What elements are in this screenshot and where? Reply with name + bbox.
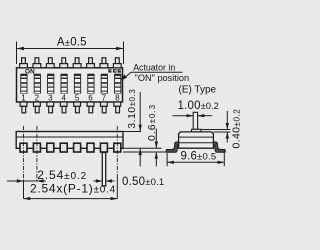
- svg-text:3.10±0.3: 3.10±0.3: [126, 89, 138, 129]
- svg-text:8: 8: [115, 93, 120, 102]
- front view pads: [20, 143, 121, 152]
- pin 1 bottom: [20, 102, 27, 106]
- pin 4 top: [62, 58, 66, 64]
- svg-text:3: 3: [48, 93, 53, 102]
- (E) body: [179, 132, 214, 148]
- pin 7 top: [102, 58, 106, 64]
- svg-text:Actuator in: Actuator in: [133, 62, 175, 72]
- pin 4 bottom: [60, 102, 67, 106]
- pin 5 bottom: [74, 102, 81, 106]
- svg-text:6: 6: [88, 93, 93, 102]
- pin 7 bottom: [101, 102, 108, 106]
- pin 6 bottom: [87, 102, 94, 106]
- pin 1 top: [22, 58, 26, 64]
- switch body top view: [17, 68, 123, 102]
- (E) view stem: [193, 112, 197, 129]
- svg-text:A±0.5: A±0.5: [57, 37, 87, 49]
- dim 9.6±0.5: [166, 153, 168, 166]
- dim 0.40±0.2: [201, 129, 230, 131]
- svg-text:1.00±0.2: 1.00±0.2: [178, 100, 219, 112]
- svg-text:1: 1: [21, 93, 26, 102]
- svg-text:2.54x(P-1)±0.4: 2.54x(P-1)±0.4: [30, 182, 116, 196]
- collar: [192, 129, 201, 132]
- svg-text:5: 5: [75, 93, 80, 102]
- front (side) view body: [16, 132, 123, 149]
- pin 2 top: [35, 58, 39, 64]
- pin 8 bottom: [114, 102, 121, 106]
- pin 2 bottom: [34, 102, 41, 106]
- svg-text:0.40±0.2: 0.40±0.2: [231, 109, 243, 149]
- dimension A±0.5: [17, 42, 124, 65]
- long lead from pin 7: [102, 153, 105, 186]
- (E) leads: [166, 142, 179, 152]
- pin 3 bottom: [47, 102, 54, 106]
- pins top view (top row + bottom row): [20, 58, 122, 113]
- switch slots 1-8: [20, 74, 121, 94]
- ECE logo: [108, 69, 121, 72]
- svg-text:(E) Type: (E) Type: [179, 84, 217, 95]
- svg-text:0.50±0.1: 0.50±0.1: [122, 176, 164, 188]
- pin 5 top: [75, 58, 79, 64]
- centerlines (dash-dot) pins 1,2,8: [24, 126, 118, 181]
- svg-text:4: 4: [61, 93, 66, 102]
- svg-text:7: 7: [102, 93, 107, 102]
- svg-text:2.54±0.2: 2.54±0.2: [37, 168, 87, 182]
- svg-text:9.6±0.5: 9.6±0.5: [181, 151, 217, 163]
- svg-text:"ON" position: "ON" position: [135, 73, 190, 83]
- pin 6 top: [89, 58, 93, 64]
- numbers 1-8: [21, 93, 120, 102]
- svg-text:2: 2: [35, 93, 40, 102]
- pin 8 top: [115, 58, 119, 64]
- pin 3 top: [48, 58, 52, 64]
